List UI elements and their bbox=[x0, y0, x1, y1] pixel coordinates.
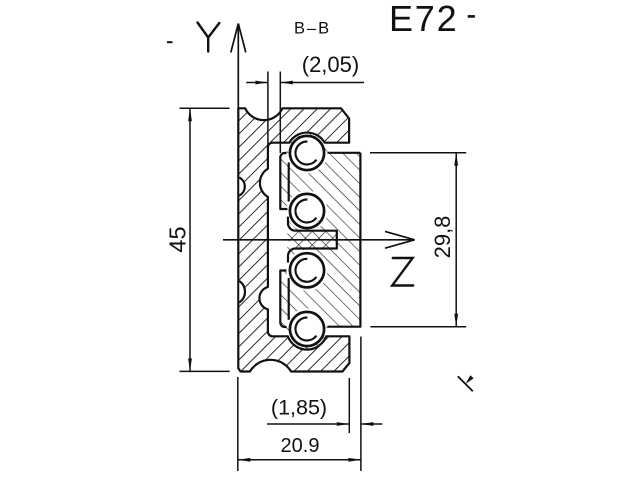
svg-text:E72: E72 bbox=[389, 0, 458, 39]
svg-text:20.9: 20.9 bbox=[281, 435, 320, 457]
svg-text:29,8: 29,8 bbox=[430, 216, 455, 259]
svg-text:(1,85): (1,85) bbox=[271, 396, 327, 420]
svg-text:B–B: B–B bbox=[294, 20, 331, 38]
svg-text:(2,05): (2,05) bbox=[302, 52, 359, 77]
svg-text:45: 45 bbox=[165, 226, 191, 252]
